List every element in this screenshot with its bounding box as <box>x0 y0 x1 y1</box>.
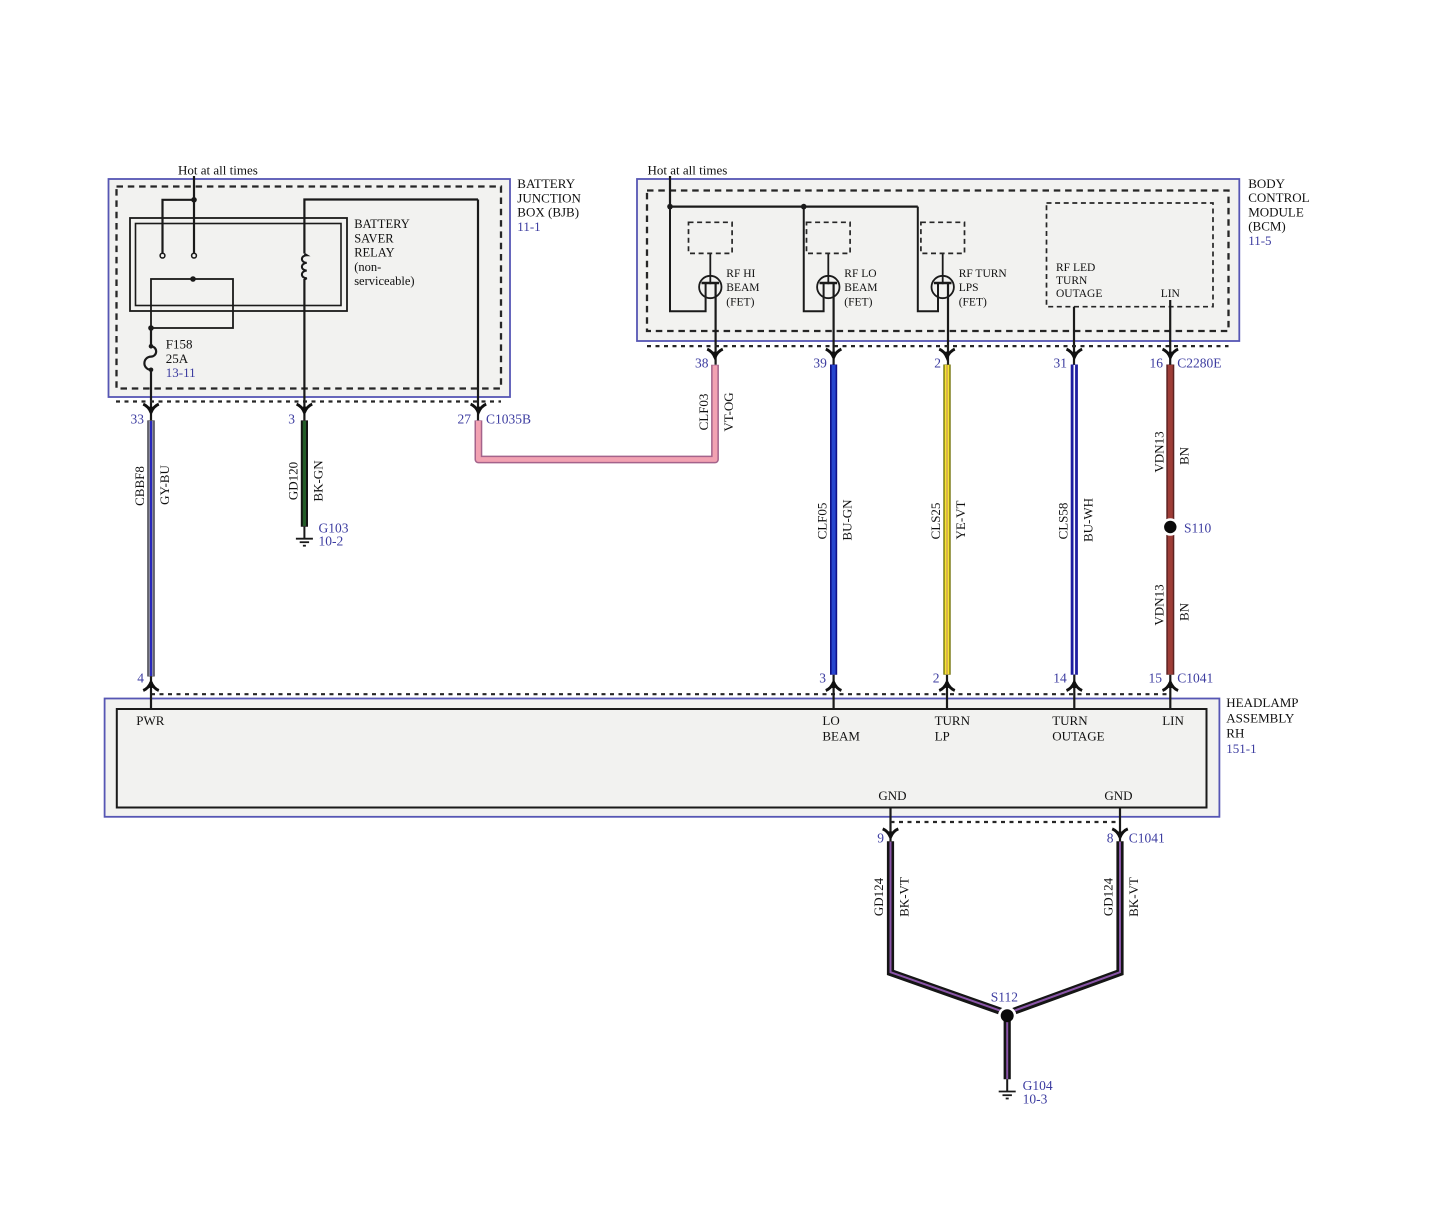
svg-text:GD120: GD120 <box>285 462 300 500</box>
svg-text:serviceable): serviceable) <box>354 274 414 288</box>
svg-text:S112: S112 <box>991 990 1018 1005</box>
svg-text:31: 31 <box>1054 356 1068 371</box>
svg-text:S110: S110 <box>1184 521 1212 536</box>
svg-text:TURN: TURN <box>1056 275 1088 287</box>
svg-text:(FET): (FET) <box>844 296 872 308</box>
svg-text:BN: BN <box>1176 602 1191 621</box>
svg-text:LIN: LIN <box>1161 288 1181 300</box>
svg-text:15: 15 <box>1149 671 1163 686</box>
svg-text:GD124: GD124 <box>871 877 886 916</box>
svg-text:3: 3 <box>819 671 826 686</box>
svg-text:LP: LP <box>935 728 950 743</box>
svg-text:TURN: TURN <box>935 713 971 728</box>
svg-text:BEAM: BEAM <box>726 282 759 294</box>
svg-text:CLF05: CLF05 <box>815 503 830 540</box>
svg-text:GND: GND <box>878 788 906 803</box>
svg-text:CLF03: CLF03 <box>696 394 711 431</box>
svg-text:VT-OG: VT-OG <box>721 392 736 431</box>
svg-text:RH: RH <box>1226 726 1244 741</box>
svg-text:BATTERY: BATTERY <box>354 217 410 231</box>
svg-text:BK-GN: BK-GN <box>310 460 325 502</box>
svg-text:GY-BU: GY-BU <box>157 465 172 505</box>
svg-text:VDN13: VDN13 <box>1151 584 1166 625</box>
svg-text:RF LED: RF LED <box>1056 262 1095 274</box>
svg-text:VDN13: VDN13 <box>1151 431 1166 472</box>
svg-text:8: 8 <box>1107 831 1114 846</box>
svg-text:GND: GND <box>1104 788 1132 803</box>
svg-text:OUTAGE: OUTAGE <box>1052 728 1104 743</box>
svg-text:BK-VT: BK-VT <box>1126 877 1141 917</box>
svg-text:13-11: 13-11 <box>166 365 196 380</box>
svg-text:TURN: TURN <box>1052 713 1088 728</box>
svg-text:HEADLAMP: HEADLAMP <box>1226 695 1298 710</box>
svg-text:BODY: BODY <box>1248 176 1285 191</box>
svg-text:14: 14 <box>1053 671 1067 686</box>
svg-text:CBBF8: CBBF8 <box>132 466 147 506</box>
svg-text:YE-VT: YE-VT <box>953 500 968 539</box>
svg-text:11-5: 11-5 <box>1248 233 1271 248</box>
svg-text:(FET): (FET) <box>959 296 987 308</box>
svg-text:MODULE: MODULE <box>1248 204 1304 219</box>
svg-text:(non-: (non- <box>354 260 381 274</box>
svg-text:BN: BN <box>1176 446 1191 465</box>
svg-text:C1041: C1041 <box>1177 671 1213 686</box>
svg-text:10-2: 10-2 <box>319 534 344 549</box>
svg-text:F158: F158 <box>166 337 193 352</box>
svg-text:38: 38 <box>695 356 709 371</box>
svg-text:BU-GN: BU-GN <box>840 499 855 541</box>
svg-text:RF HI: RF HI <box>726 268 755 280</box>
svg-text:BK-VT: BK-VT <box>897 877 912 917</box>
svg-text:OUTAGE: OUTAGE <box>1056 288 1102 300</box>
svg-text:3: 3 <box>288 412 295 427</box>
svg-text:JUNCTION: JUNCTION <box>517 190 581 205</box>
svg-text:151-1: 151-1 <box>1226 741 1256 756</box>
svg-text:10-3: 10-3 <box>1023 1091 1048 1106</box>
svg-text:Hot at all times: Hot at all times <box>178 162 258 177</box>
svg-text:2: 2 <box>933 671 940 686</box>
svg-text:BEAM: BEAM <box>844 282 877 294</box>
svg-text:4: 4 <box>137 671 144 686</box>
svg-text:25A: 25A <box>166 351 189 366</box>
svg-text:LPS: LPS <box>959 282 979 294</box>
svg-text:CONTROL: CONTROL <box>1248 190 1309 205</box>
svg-text:LO: LO <box>822 713 839 728</box>
svg-text:(FET): (FET) <box>726 296 754 308</box>
svg-text:BATTERY: BATTERY <box>517 176 575 191</box>
svg-text:Hot at all times: Hot at all times <box>648 162 728 177</box>
svg-text:LIN: LIN <box>1162 713 1184 728</box>
svg-text:39: 39 <box>813 356 827 371</box>
svg-text:9: 9 <box>877 831 884 846</box>
svg-text:C1041: C1041 <box>1129 831 1165 846</box>
svg-text:CLS25: CLS25 <box>928 503 943 540</box>
svg-text:11-1: 11-1 <box>517 219 540 234</box>
svg-text:RF LO: RF LO <box>844 268 876 280</box>
svg-text:16: 16 <box>1150 356 1164 371</box>
svg-text:C2280E: C2280E <box>1177 356 1221 371</box>
svg-text:C1035B: C1035B <box>486 412 531 427</box>
svg-text:RF TURN: RF TURN <box>959 268 1008 280</box>
svg-text:33: 33 <box>131 412 145 427</box>
svg-text:BU-WH: BU-WH <box>1080 498 1095 542</box>
svg-text:BEAM: BEAM <box>822 728 860 743</box>
svg-text:CLS58: CLS58 <box>1055 503 1070 540</box>
svg-text:RELAY: RELAY <box>354 246 395 260</box>
svg-text:BOX (BJB): BOX (BJB) <box>517 205 579 220</box>
svg-text:2: 2 <box>934 356 941 371</box>
svg-text:27: 27 <box>458 412 472 427</box>
svg-text:(BCM): (BCM) <box>1248 219 1286 234</box>
svg-text:PWR: PWR <box>136 713 165 728</box>
svg-text:GD124: GD124 <box>1101 877 1116 916</box>
svg-text:ASSEMBLY: ASSEMBLY <box>1226 710 1295 725</box>
svg-text:SAVER: SAVER <box>354 231 394 245</box>
